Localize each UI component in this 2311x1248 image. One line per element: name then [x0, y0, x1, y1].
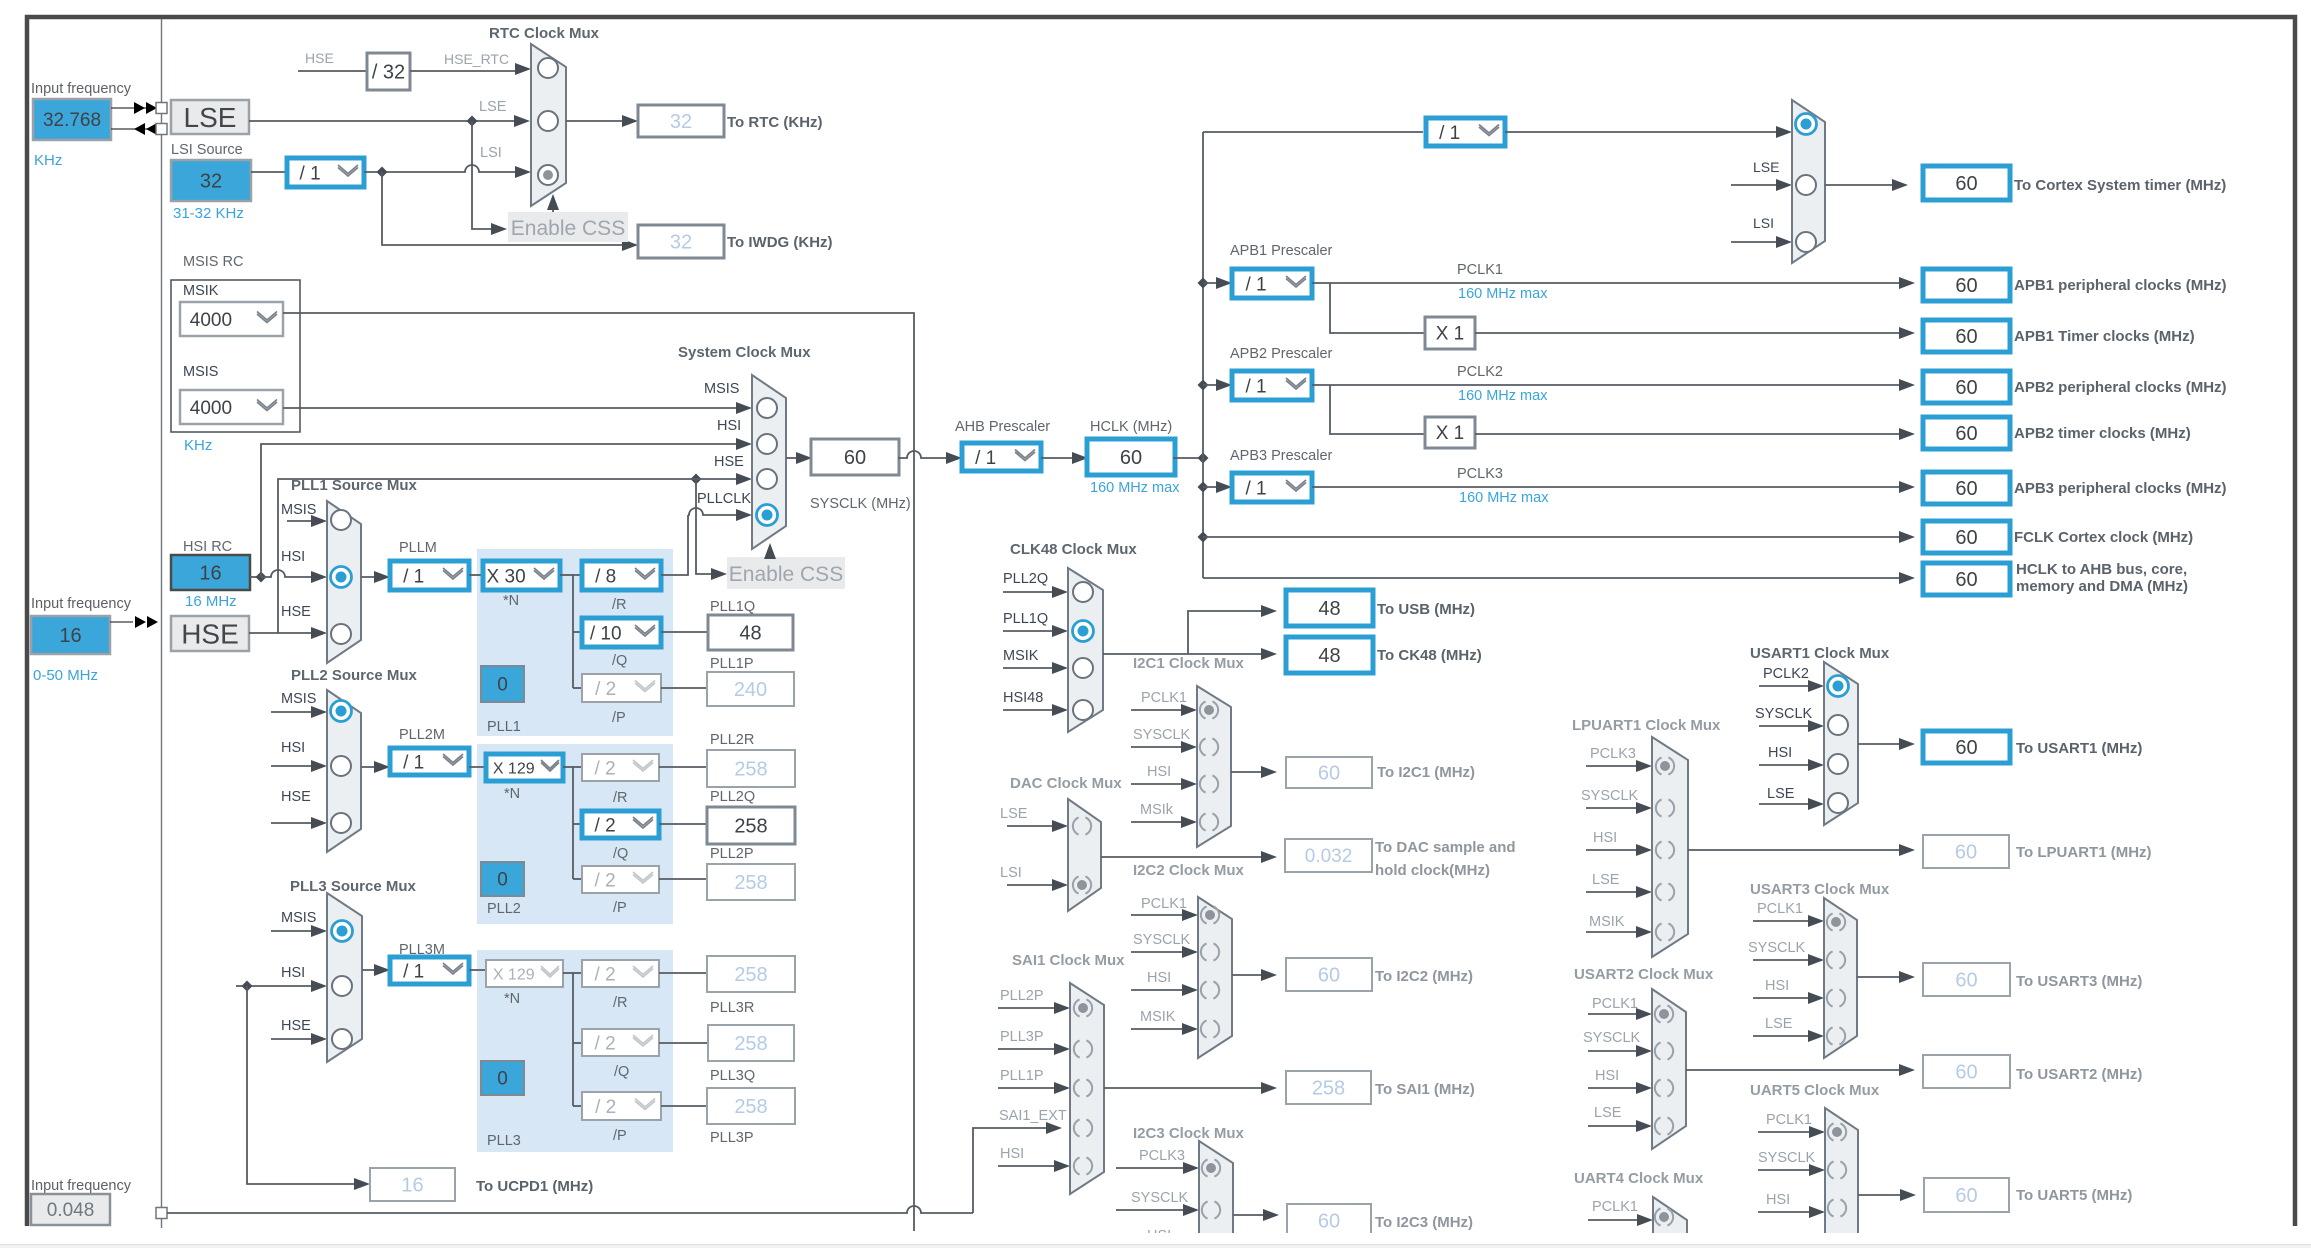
To USART1 box 60: [1923, 731, 2010, 763]
svg-text:To USB (MHz): To USB (MHz): [1377, 601, 1475, 618]
title I2C2 Clock Mux: [1133, 862, 1245, 879]
title PLL2 Source Mux: [291, 667, 418, 684]
stub HSI i2c1: [1131, 778, 1197, 790]
svg-text:PLL2P: PLL2P: [1000, 988, 1044, 1004]
svg-text:16: 16: [199, 563, 221, 585]
label PCLK1 (i2c1): [1141, 690, 1187, 706]
label PLL2M: [399, 727, 445, 743]
Enable CSS button (LSE): [508, 212, 628, 242]
wire /2Q to PLL2Q box: [659, 823, 707, 825]
svg-text:/R: /R: [613, 790, 628, 806]
HSI RC box 16: [171, 555, 250, 590]
svg-text:258: 258: [734, 964, 767, 986]
svg-text:/ 1: / 1: [1245, 478, 1266, 499]
wire /2P to PLL3P box: [661, 1105, 707, 1107]
wire RTC mux to To RTC box: [566, 115, 638, 127]
svg-text:AHB Prescaler: AHB Prescaler: [955, 419, 1050, 435]
svg-text:/ 10: / 10: [590, 623, 622, 644]
PLL1Q box 48: [708, 615, 793, 650]
APB1 peripheral clocks box: [1923, 269, 2010, 301]
wire LSI net: [364, 165, 531, 178]
To Cortex System timer box: [1923, 166, 2010, 200]
svg-text:hold clock(MHz): hold clock(MHz): [1375, 862, 1490, 879]
svg-text:To I2C2 (MHz): To I2C2 (MHz): [1375, 968, 1473, 985]
wire HSE net: [249, 473, 752, 639]
arrow Enable CSS to RTC mux: [547, 194, 559, 212]
wire pll3 xN fanout: [563, 973, 582, 1106]
label SYSCLK (i2c2): [1133, 932, 1191, 948]
stub PCLK1 usart2: [1588, 1008, 1652, 1020]
wire rail to APB2: [1198, 379, 1233, 391]
PLL2M divider /1: [390, 748, 469, 775]
stub MSIK lpuart1: [1586, 926, 1652, 938]
svg-text:To USART3 (MHz): To USART3 (MHz): [2016, 973, 2142, 990]
svg-text:60: 60: [1955, 423, 1977, 445]
label /P (pll3): [613, 1128, 627, 1144]
wire LSI to IWDG: [382, 172, 638, 251]
svg-text:60: 60: [1318, 1211, 1340, 1233]
label HSI (pll3): [281, 965, 305, 981]
svg-text:Enable CSS: Enable CSS: [729, 563, 843, 586]
svg-text:To Cortex System timer (MHz): To Cortex System timer (MHz): [2014, 177, 2226, 194]
PLL2 divider /2 P: [582, 866, 659, 893]
stub SYSCLK i2c3: [1116, 1204, 1199, 1216]
svg-text:SYSCLK: SYSCLK: [1758, 1150, 1816, 1166]
label PCLK1 (usart2): [1592, 996, 1638, 1012]
wire UART5 out: [1858, 1189, 1916, 1201]
label LSI (dac): [1000, 865, 1022, 881]
svg-text:HSI: HSI: [1000, 1146, 1024, 1162]
label HSI (pll1): [281, 549, 305, 565]
svg-text:/P: /P: [613, 900, 627, 916]
svg-text:To IWDG (KHz): To IWDG (KHz): [727, 234, 833, 251]
svg-text:60: 60: [1955, 478, 1977, 500]
label PLL1: [487, 719, 521, 735]
scrollbar track: [0, 1245, 2311, 1248]
wire LSE pin out: [111, 107, 154, 109]
label HSI48 (clk48): [1003, 690, 1043, 706]
stub HSI lpuart1: [1586, 844, 1652, 856]
svg-text:LSI: LSI: [480, 145, 502, 161]
stub SYSCLK usart3: [1753, 954, 1824, 966]
stub HSE pll2: [271, 817, 327, 829]
label To UART5: [2016, 1187, 2132, 1204]
label HSI (usart2): [1595, 1068, 1619, 1084]
title PLL1 Source Mux: [291, 477, 418, 494]
svg-text:PLL2P: PLL2P: [710, 846, 754, 862]
label KHz (MSIS): [184, 437, 212, 454]
label KHz (LSE): [34, 152, 62, 169]
label MSIK (i2c2): [1140, 1009, 1176, 1025]
stub HSI usart1: [1759, 759, 1824, 771]
To DAC box 0.032: [1285, 839, 1372, 872]
svg-text:PCLK2: PCLK2: [1763, 666, 1809, 682]
PLL2P box 258: [707, 864, 795, 900]
stub PLL3P sai1: [998, 1043, 1070, 1055]
label PLL2P: [710, 846, 754, 862]
title System Clock Mux: [678, 344, 811, 361]
label PLL3P (sai1): [1000, 1029, 1044, 1045]
label PCLK2: [1457, 364, 1503, 380]
svg-text:258: 258: [734, 816, 767, 838]
PLL2R box 258: [707, 750, 795, 787]
label PLL3R: [710, 1000, 754, 1016]
svg-text:/P: /P: [613, 1128, 627, 1144]
To USB box 48: [1286, 590, 1373, 626]
svg-text:MSIS: MSIS: [281, 910, 316, 926]
To RTC output box: [638, 105, 724, 137]
svg-text:SYSCLK: SYSCLK: [1755, 706, 1813, 722]
stub PLL1P sai1: [998, 1082, 1070, 1094]
svg-text:/R: /R: [612, 597, 627, 613]
svg-text:Input frequency: Input frequency: [31, 1178, 132, 1194]
label HSI RC: [183, 539, 232, 555]
svg-text:KHz: KHz: [184, 437, 212, 454]
svg-text:USART2 Clock Mux: USART2 Clock Mux: [1574, 966, 1714, 983]
label 160 MHz max APB1: [1458, 286, 1548, 302]
label PLL3: [487, 1133, 521, 1149]
svg-text:PLL1P: PLL1P: [710, 656, 754, 672]
wire MSIS to system mux: [283, 402, 752, 414]
wire DAC out: [1101, 851, 1277, 863]
svg-text:DAC Clock Mux: DAC Clock Mux: [1010, 775, 1122, 792]
svg-text:/ 2: / 2: [595, 815, 616, 836]
svg-text:60: 60: [1955, 970, 1977, 992]
stub PCLK3 lpuart1: [1586, 760, 1652, 772]
svg-text:LSE: LSE: [1594, 1105, 1622, 1121]
svg-text:MSIK: MSIK: [1589, 914, 1625, 930]
label *N (pll2): [504, 786, 520, 802]
label SYSCLK (usart3): [1748, 940, 1806, 956]
svg-text:X 30: X 30: [487, 566, 526, 587]
wire /2 to PLL1P box: [661, 687, 707, 689]
svg-text:MSIk: MSIk: [1140, 802, 1174, 818]
label LSE (rtc mux): [479, 99, 507, 115]
svg-text:HSI48: HSI48: [1003, 690, 1043, 706]
svg-text:MSIK: MSIK: [183, 283, 219, 299]
APB3 peripheral clocks box: [1923, 472, 2010, 504]
svg-text:0-50 MHz: 0-50 MHz: [33, 667, 98, 684]
wire /2P to PLL2P box: [659, 878, 707, 880]
stub SYSCLK i2c2: [1131, 946, 1198, 958]
I2C3 Clock Mux: [1199, 1141, 1233, 1248]
PLL3M divider /1: [390, 957, 469, 984]
label 31-32 KHz: [173, 205, 244, 222]
label LSI (cortex mux): [1753, 215, 1774, 231]
svg-text:60: 60: [1120, 447, 1142, 469]
label PLL1Q: [710, 599, 755, 615]
svg-text:memory and DMA (MHz): memory and DMA (MHz): [2016, 578, 2188, 595]
svg-text:/ 1: / 1: [403, 566, 424, 587]
svg-text:LSI Source: LSI Source: [171, 142, 243, 158]
wire MSIK rail: [283, 313, 914, 1231]
HCLK to AHB box: [1923, 563, 2010, 595]
label PCLK3 (i2c3): [1139, 1148, 1185, 1164]
label HSI (i2c1): [1147, 764, 1171, 780]
label PLL2Q (clk48): [1003, 571, 1048, 587]
svg-text:0: 0: [497, 1069, 508, 1090]
label APB2 timer clocks: [2014, 425, 2191, 442]
label PLL3Q: [710, 1068, 755, 1084]
svg-text:SYSCLK: SYSCLK: [1131, 1190, 1189, 1206]
svg-text:HSI: HSI: [1766, 1192, 1790, 1208]
wire pll2 mux out: [361, 761, 390, 773]
title PLL3 Source Mux: [290, 878, 417, 895]
svg-text:*N: *N: [503, 593, 519, 609]
title USART2 Clock Mux: [1574, 966, 1714, 983]
wire system mux to SYSCLK box: [786, 452, 812, 464]
svg-text:APB3 Prescaler: APB3 Prescaler: [1230, 448, 1333, 464]
wire HSE to /32: [298, 70, 367, 72]
title USART3 Clock Mux: [1750, 881, 1890, 898]
svg-text:HCLK to AHB bus, core,: HCLK to AHB bus, core,: [2016, 561, 2187, 578]
svg-text:PLL3P: PLL3P: [710, 1130, 754, 1146]
svg-text:PLL3: PLL3: [487, 1133, 521, 1149]
svg-text:X 129: X 129: [493, 760, 535, 777]
svg-text:LSE: LSE: [184, 102, 237, 133]
PLL1 panel: [477, 549, 673, 736]
wire HSE_RTC to RTC mux: [410, 63, 531, 75]
svg-text:0: 0: [497, 870, 508, 891]
stub PLL1Q clk48: [1003, 625, 1068, 637]
stub HSI usart2: [1588, 1082, 1652, 1094]
svg-text:SYSCLK: SYSCLK: [1133, 932, 1191, 948]
stub MSIK i2c1: [1131, 816, 1197, 828]
stub PCLK3 i2c3: [1116, 1162, 1199, 1174]
wire LSI to divider: [251, 171, 287, 173]
svg-text:LSE: LSE: [1767, 786, 1795, 802]
wire HSI net: [250, 438, 752, 583]
svg-text:To I2C3 (MHz): To I2C3 (MHz): [1375, 1214, 1473, 1231]
wire pll3m to xN: [469, 969, 486, 971]
label 0-50 MHz: [33, 667, 98, 684]
label PLLCLK (sysmux): [697, 491, 751, 507]
svg-text:HSE: HSE: [281, 604, 311, 620]
svg-text:/ 1: / 1: [1245, 376, 1266, 397]
svg-text:APB1 Timer clocks (MHz): APB1 Timer clocks (MHz): [2014, 328, 2195, 345]
label HSI (i2c3): [1147, 1228, 1171, 1244]
svg-text:PLL1Q: PLL1Q: [1003, 611, 1048, 627]
svg-text:SYSCLK: SYSCLK: [1583, 1030, 1641, 1046]
label To I2C1: [1377, 764, 1475, 781]
label APB1 Prescaler: [1230, 243, 1333, 259]
stub SYSCLK usart1: [1759, 720, 1824, 732]
svg-text:60: 60: [1955, 842, 1977, 864]
label PLL1Q (clk48): [1003, 611, 1048, 627]
LPUART1 Clock Mux: [1652, 737, 1688, 957]
svg-text:LSE: LSE: [479, 99, 507, 115]
wire I2C3 out: [1233, 1209, 1279, 1221]
svg-text:48: 48: [739, 623, 761, 645]
wire /2R to PLL2R box: [659, 766, 707, 768]
stub SYSCLK usart2: [1588, 1045, 1652, 1057]
PLL3R box 258: [707, 956, 795, 992]
To I2C1 box 60: [1286, 757, 1372, 788]
PLL3 divider /2 R: [582, 960, 659, 987]
svg-text:To USART2 (MHz): To USART2 (MHz): [2016, 1066, 2142, 1083]
svg-text:60: 60: [1955, 377, 1977, 399]
svg-text:RTC Clock Mux: RTC Clock Mux: [489, 25, 600, 42]
wire cortex mux out: [1825, 179, 1908, 191]
Cortex timer mux: [1792, 100, 1825, 263]
stub MSIS pll2: [271, 706, 327, 718]
svg-text:LSE: LSE: [1753, 159, 1779, 175]
APB2 prescaler /1: [1232, 371, 1312, 400]
IP boundary rail: [161, 19, 163, 1228]
title UART4 Clock Mux: [1574, 1170, 1704, 1187]
To IWDG output box: [638, 225, 724, 258]
label SYSCLK (usart2): [1583, 1030, 1641, 1046]
svg-text:PCLK3: PCLK3: [1457, 466, 1503, 482]
svg-text:/ 1: / 1: [1439, 123, 1460, 144]
label HSI (uart5): [1766, 1192, 1790, 1208]
label HSE (sysmux): [714, 454, 744, 470]
label /Q (pll2): [613, 846, 628, 862]
svg-text:Input frequency: Input frequency: [31, 81, 132, 97]
USART2 Clock Mux: [1652, 989, 1686, 1149]
label To SAI1: [1375, 1081, 1475, 1098]
svg-text:/ 1: / 1: [1245, 274, 1266, 295]
wire APB1 out: [1312, 277, 1915, 289]
svg-text:PLL2: PLL2: [487, 901, 521, 917]
svg-text:/ 2: / 2: [595, 964, 616, 985]
stub MSIK clk48: [1003, 662, 1068, 674]
wire rail to APB1: [1198, 277, 1233, 289]
label To LPUART1: [2016, 844, 2152, 861]
stub HSI uart5: [1758, 1206, 1825, 1218]
label PCLK1 (usart3): [1757, 901, 1803, 917]
svg-text:/ 2: / 2: [595, 679, 616, 700]
title I2C1 Clock Mux: [1133, 655, 1245, 672]
label PCLK1 (i2c2): [1141, 896, 1187, 912]
svg-text:PLL1Q: PLL1Q: [710, 599, 755, 615]
label APB3 peripheral clocks: [2014, 480, 2227, 497]
svg-text:PLL3P: PLL3P: [1000, 1029, 1044, 1045]
stub PLL2P sai1: [998, 1002, 1070, 1014]
svg-text:/Q: /Q: [613, 846, 628, 862]
svg-text:PCLK1: PCLK1: [1141, 690, 1187, 706]
label /P (pll1): [612, 710, 626, 726]
label 160 MHz max APB3: [1459, 490, 1549, 506]
wire SYSCLK to AHB presc: [898, 451, 962, 464]
svg-text:/ 2: / 2: [595, 758, 616, 779]
label SYSCLK (i2c3): [1131, 1190, 1189, 1206]
AHB prescaler /1: [962, 443, 1041, 471]
To I2C3 box 60: [1287, 1204, 1371, 1237]
label FCLK Cortex clock: [2014, 529, 2193, 546]
MSIS dropdown 4000: [180, 390, 283, 424]
label To I2C3: [1375, 1214, 1473, 1231]
svg-text:/ 1: / 1: [403, 752, 424, 773]
PLL1 divider /10 Q: [582, 618, 661, 647]
svg-text:PLL1P: PLL1P: [1000, 1068, 1044, 1084]
svg-text:*N: *N: [504, 991, 520, 1007]
svg-text:/Q: /Q: [612, 653, 627, 669]
PLL2 panel: [477, 744, 673, 924]
svg-text:HSE: HSE: [281, 789, 311, 805]
label LSE (cortex mux): [1753, 159, 1779, 175]
svg-text:258: 258: [734, 872, 767, 894]
canvas bottom clip: [0, 1233, 2311, 1248]
To CK48 box 48: [1286, 637, 1373, 673]
svg-text:PLL3R: PLL3R: [710, 1000, 754, 1016]
label MSIK (lpuart1): [1589, 914, 1625, 930]
svg-text:60: 60: [1955, 173, 1977, 195]
stub SYSCLK uart5: [1758, 1164, 1825, 1176]
svg-text:32.768: 32.768: [43, 110, 101, 131]
label 160 MHz max (HCLK): [1090, 480, 1180, 496]
label 160 MHz max APB2: [1458, 388, 1548, 404]
APB1 prescaler /1: [1232, 269, 1312, 298]
svg-text:HSI: HSI: [1147, 764, 1171, 780]
svg-text:60: 60: [1955, 569, 1977, 591]
label PLL2Q: [710, 789, 755, 805]
wire CLK48 out: [1103, 605, 1277, 660]
label MSIK: [183, 283, 219, 299]
svg-text:0.032: 0.032: [1305, 846, 1353, 867]
Enable CSS button (HSE): [727, 557, 845, 589]
wire LSE pin in: [111, 128, 154, 130]
label PCLK3: [1457, 466, 1503, 482]
label HSI (pll2): [281, 740, 305, 756]
label To RTC (KHz): [727, 114, 823, 131]
wire rail to cortex prescaler: [1203, 131, 1423, 133]
svg-text:LSE: LSE: [1000, 806, 1028, 822]
wire rail to HCLK AHB: [1203, 572, 1915, 584]
label MSIk (i2c1): [1140, 802, 1174, 818]
svg-text:PCLK2: PCLK2: [1457, 364, 1503, 380]
SYSCLK box 60: [811, 439, 899, 475]
label HSI (sai1): [1000, 1146, 1024, 1162]
svg-text:To UCPD1 (MHz): To UCPD1 (MHz): [476, 1178, 593, 1195]
To USART3 box 60: [1923, 963, 2010, 996]
svg-text:SYSCLK: SYSCLK: [1581, 788, 1639, 804]
svg-text:HSE: HSE: [181, 618, 239, 649]
To LPUART1 box 60: [1923, 835, 2009, 868]
svg-text:/R: /R: [613, 995, 628, 1011]
label Input frequency (LSE): [31, 81, 132, 97]
PLL3Q box 258: [708, 1025, 794, 1061]
label SYSCLK (i2c1): [1133, 727, 1191, 743]
svg-text:PLL2Q: PLL2Q: [710, 789, 755, 805]
svg-text:LSI: LSI: [1000, 865, 1022, 881]
stub MSIK i2c2: [1131, 1023, 1198, 1035]
stub PCLK1 i2c2: [1131, 909, 1198, 921]
wire I2C1 out: [1231, 766, 1277, 778]
double arrow right (HSE pin): [135, 616, 158, 628]
title UART5 Clock Mux: [1750, 1082, 1880, 1099]
PLL1 Source Mux: [327, 501, 361, 663]
label /P (pll2): [613, 900, 627, 916]
svg-text:258: 258: [1312, 1078, 1345, 1100]
I2C2 Clock Mux: [1198, 897, 1232, 1058]
stub SYSCLK i2c1: [1131, 741, 1197, 753]
label HSE (RTC): [305, 50, 334, 66]
label PCLK1 (uart5): [1766, 1112, 1812, 1128]
stub PLL2Q clk48: [1003, 586, 1068, 598]
wire /10 to PLL1Q box: [661, 631, 708, 633]
LSI source box 32: [171, 160, 251, 201]
HSE input frequency box 16: [31, 616, 110, 654]
APB2 peripheral clocks box: [1923, 371, 2010, 403]
stub PCLK1 uart5: [1758, 1126, 1825, 1138]
DAC Clock Mux: [1068, 799, 1101, 911]
divider /32 HSE_RTC: [367, 53, 410, 90]
double arrow left (LSE pin): [134, 123, 157, 135]
stub SYSCLK lpuart1: [1586, 802, 1652, 814]
svg-text:160 MHz max: 160 MHz max: [1090, 480, 1180, 496]
svg-text:USART1 Clock Mux: USART1 Clock Mux: [1750, 645, 1890, 662]
